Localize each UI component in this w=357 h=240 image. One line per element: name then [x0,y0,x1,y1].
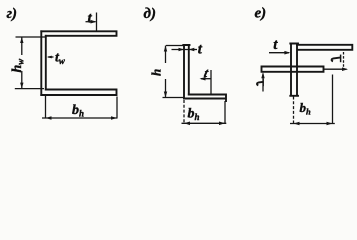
channel bottom flange [41,90,116,96]
dimension b_h line [182,122,227,124]
right t extension line (dashed) [343,52,345,67]
dimension h extension lines [163,46,185,98]
b_h arrowheads [184,122,190,126]
angle horizontal leg [184,95,226,102]
dimension h arrowheads [164,46,167,52]
channel web [41,31,46,95]
label t left (rotated) [257,82,264,86]
top flange [297,45,352,50]
label t right (rotated) [332,58,340,62]
svg-text:h: h [149,69,164,76]
dimension h_w extension lines [15,37,46,89]
b_h arrowheads [294,122,300,126]
dimension h_w line [21,37,23,89]
t arrowheads [179,48,185,52]
dimension b_h line [42,117,118,119]
right t dimension arrow line [324,68,347,70]
dimension h line [165,46,167,98]
dimension t (leg thickness) line [172,49,198,51]
dimension t extension line [96,13,98,31]
t dimension line with arrow [269,52,289,54]
vertical plate [290,44,298,96]
svg-text:г): г) [7,6,18,22]
dimension b_h extension lines [183,100,185,124]
channel top flange [41,31,116,36]
dimension t arrow [15,13,97,89]
t_w arrow [42,56,118,120]
inner t arrow [201,78,211,80]
angle vertical leg [183,45,189,99]
svg-text:д): д) [144,6,156,22]
dimension h_w arrowheads [20,37,23,43]
inner t extension line [210,70,212,94]
dimension b_h line [290,123,335,125]
dimension b_h extension lines [46,96,118,118]
horizontal plate [262,67,324,72]
svg-text:е): е) [255,6,267,22]
b_h arrowheads [46,116,52,120]
dimension b_h extension lines [293,97,295,125]
left t extension line with arrow [262,74,264,92]
